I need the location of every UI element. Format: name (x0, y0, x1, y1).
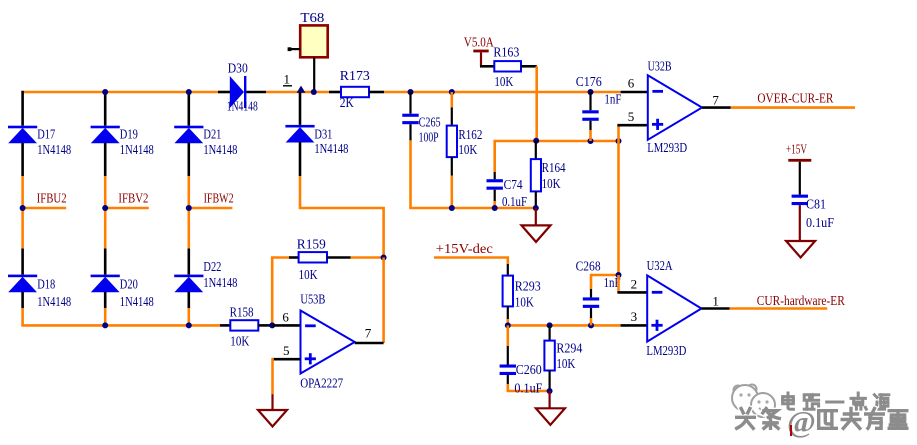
wire U53B pin5 stub (273, 358, 301, 361)
svg-text:6: 6 (282, 309, 289, 324)
diode D22 1N4148 (174, 275, 203, 293)
svg-text:0.1uF: 0.1uF (806, 215, 834, 230)
svg-text:0.1uF: 0.1uF (514, 380, 542, 395)
svg-text:+15V: +15V (786, 141, 807, 156)
svg-text:1N4148: 1N4148 (227, 99, 258, 114)
svg-text:1N4148: 1N4148 (37, 294, 71, 309)
wire C81 to ground (799, 205, 801, 241)
wire R294 bottom lead (548, 371, 550, 392)
wire D19 top lead (104, 92, 107, 126)
power V5.0A bar (473, 50, 488, 53)
wire below D17 (21, 143, 24, 176)
wire R164 bottom lead (535, 191, 537, 208)
wire R158 right lead (258, 324, 272, 327)
svg-text:1N4148: 1N4148 (37, 142, 71, 157)
svg-text:3: 3 (631, 309, 638, 324)
svg-text:R293: R293 (515, 279, 541, 294)
watermark text line1 (783, 393, 794, 409)
junction C268 bottom (588, 322, 594, 328)
diode D31 1N4148 (285, 125, 314, 143)
svg-text:10K: 10K (494, 74, 513, 89)
junction C176 top (588, 89, 594, 95)
ground C81 (786, 241, 815, 258)
watermark text line2 (737, 409, 755, 429)
wire D17 top lead (21, 91, 24, 126)
wire U32B pin5 stub (617, 124, 648, 127)
diode D21 1N4148 (174, 126, 203, 144)
junction R294 top (547, 322, 553, 328)
capacitor C176 1nF plates (582, 110, 598, 120)
svg-text:IFBV2: IFBV2 (118, 191, 148, 206)
svg-text:IFBU2: IFBU2 (37, 191, 67, 206)
wire R163 left lead (480, 65, 494, 68)
wire R162 bottom lead (451, 157, 453, 175)
wire ground stem U53B (271, 394, 273, 410)
svg-text:1: 1 (712, 293, 719, 308)
wire R162 top stub (450, 92, 453, 108)
wire threshold rail (495, 140, 619, 143)
svg-text:10K: 10K (299, 267, 318, 282)
wire below D20 (104, 292, 107, 308)
wire top bus after D30 (266, 91, 329, 94)
wire R173 left lead (329, 91, 341, 94)
svg-text:D22: D22 (203, 259, 221, 274)
svg-text:C81: C81 (806, 196, 826, 211)
op-amp U32B LM293D body (648, 75, 702, 140)
svg-text:0.1uF: 0.1uF (502, 194, 527, 209)
wire D21 top lead (188, 92, 191, 126)
wire R293 bottom stub (506, 319, 509, 325)
svg-text:R163: R163 (493, 44, 519, 59)
junction R164 bottom (533, 205, 539, 211)
svg-text:R158: R158 (230, 304, 254, 319)
wire D22 top lead (188, 249, 191, 275)
diode D20 1N4148 (91, 275, 120, 293)
wire D20 top lead (104, 249, 107, 275)
wire top bus left segment (21, 91, 218, 94)
op-amp U32B LM293D minus sign (652, 90, 663, 93)
resistor R294 body (544, 341, 554, 371)
stray red mark under watermark (790, 425, 792, 436)
op-amp U32A LM293D plus sign (651, 324, 662, 327)
svg-text:7: 7 (365, 325, 372, 340)
ground stage2 (536, 408, 565, 425)
op-amp U53B OPA2227 body (301, 311, 355, 374)
wire U53B output lead (355, 342, 384, 345)
wire R294 top lead (548, 325, 550, 340)
junction IFBW2 (186, 205, 192, 211)
svg-text:5: 5 (283, 343, 290, 358)
node IFB stub 1 (23, 207, 67, 210)
wire T68 left pin (290, 48, 300, 50)
resistor R164 body (531, 159, 541, 191)
diode D30 1N4148 (230, 76, 247, 108)
wire R293 top lead (507, 264, 509, 276)
wire C265 to middle rail (411, 140, 536, 208)
wire R162 top lead (451, 108, 453, 126)
wire top bus after R173 to U32B pin6 (384, 91, 621, 94)
junction R293 bottom (505, 322, 511, 328)
svg-text:1N4148: 1N4148 (314, 141, 348, 156)
wire C260 bottom lead (507, 375, 509, 384)
svg-text:U53B: U53B (300, 291, 325, 306)
svg-text:2: 2 (631, 276, 638, 291)
svg-text:C268: C268 (576, 258, 601, 273)
svg-text:R294: R294 (556, 340, 582, 355)
svg-text:R164: R164 (542, 160, 566, 175)
svg-text:D30: D30 (228, 61, 248, 76)
svg-text:7: 7 (712, 93, 719, 108)
diode D18 1N4148 (8, 275, 37, 293)
wire +15V stem (799, 162, 801, 195)
resistor R163 body (494, 61, 521, 71)
svg-text:10K: 10K (230, 333, 249, 348)
op-amp U32A LM293D body (647, 275, 701, 341)
junction T68 pin on bus (311, 89, 317, 95)
svg-text:1N4148: 1N4148 (120, 142, 154, 157)
svg-text:D20: D20 (120, 277, 138, 292)
wire IFB node down (21, 208, 24, 249)
wire feedback drop (382, 258, 385, 344)
svg-text:IFBW2: IFBW2 (204, 191, 234, 206)
wire OVER-CUR-ER net (731, 106, 855, 109)
wire threshold rail to stage2 (617, 141, 620, 275)
wire R159 to output node (351, 256, 384, 259)
op-amp U53B OPA2227 plus sign (305, 357, 316, 360)
wire D21 to IFB node (188, 176, 191, 208)
wire C74 bottom stub (493, 201, 496, 208)
diode D19 1N4148 (91, 126, 120, 144)
junction IFBV2 (102, 205, 108, 211)
wire U32A output lead (701, 307, 729, 310)
wire IFB node down (104, 208, 107, 249)
component T68 body (300, 25, 328, 57)
wire C176 bottom stub (589, 130, 592, 141)
svg-text:D31: D31 (314, 127, 332, 142)
svg-text:D18: D18 (37, 277, 55, 292)
svg-text:R159: R159 (297, 236, 326, 251)
wire R163 drop to R164 (535, 66, 538, 141)
svg-text:C176: C176 (576, 74, 602, 89)
wire U53B pin6 stub (272, 324, 300, 327)
wire bottom-left bus (23, 324, 220, 325)
svg-text:OPA2227: OPA2227 (300, 376, 343, 391)
svg-text:U32A: U32A (647, 258, 673, 273)
wire T68 bottom pin (313, 57, 315, 92)
wire U32A pin2 stub (617, 291, 647, 294)
wire R173 right lead (369, 91, 384, 94)
wire C176 top lead (589, 92, 591, 110)
junction C74 bottom (492, 205, 498, 211)
svg-text:1N4148: 1N4148 (120, 294, 154, 309)
wire U53B pin5 drop (271, 358, 274, 394)
resistor R158 body (230, 320, 258, 330)
wire C265 top lead (409, 92, 411, 114)
ground U53B (258, 410, 287, 427)
capacitor C74 0.1nF plates (487, 179, 503, 190)
wire U32A pin2 riser (617, 275, 620, 292)
wire D30 cathode lead (246, 91, 266, 94)
junction R162 bottom (449, 205, 455, 211)
junction C176 bottom (588, 138, 594, 144)
wire CUR-hardware-ER net (730, 307, 828, 310)
wire below D22 (188, 292, 191, 308)
wire C268 top stub (590, 274, 593, 289)
wire D18 to bottom bus (21, 308, 24, 325)
op-amp U32B LM293D plus sign (652, 123, 663, 126)
wire U32B pin5 riser (617, 125, 620, 141)
svg-text:+15V-dec: +15V-dec (436, 241, 493, 256)
junction feedback node (381, 255, 387, 261)
junction D20 bottom (102, 322, 108, 328)
svg-text:D21: D21 (203, 127, 221, 142)
wire R163 right lead (521, 65, 537, 68)
junction D21 top (186, 89, 192, 95)
wire below D19 (104, 143, 107, 176)
svg-text:U32B: U32B (648, 59, 672, 74)
resistor R159 body (299, 252, 327, 262)
resistor R162 body (447, 126, 457, 158)
wire R159 left feed (272, 258, 289, 326)
wire IFB node down (188, 208, 191, 249)
svg-text:1: 1 (284, 72, 291, 87)
op-amp U32A LM293D minus sign (652, 291, 663, 294)
node IFB stub 3 (189, 207, 233, 210)
svg-text:100P: 100P (419, 129, 439, 144)
junction R294 bottom (547, 388, 553, 394)
svg-text:CUR-hardware-ER: CUR-hardware-ER (757, 293, 845, 308)
svg-text:6: 6 (628, 76, 635, 91)
wire stage2 input rail (508, 324, 621, 327)
wire R164 top lead (535, 141, 537, 159)
svg-text:5: 5 (628, 109, 635, 124)
wire below D31 (299, 142, 302, 176)
op-amp U53B OPA2227 minus sign (305, 324, 316, 327)
junction D22 bottom (186, 322, 192, 328)
node IFB stub 2 (105, 207, 149, 210)
svg-text:10K: 10K (556, 356, 575, 371)
resistor R293 body (503, 276, 513, 307)
svg-text:1nF: 1nF (604, 91, 621, 106)
wire C268 top lead (590, 289, 592, 297)
wire ground stem mid (535, 208, 537, 225)
wire C74 bottom lead (494, 190, 496, 201)
capacitor C81 0.1uF plates (792, 195, 808, 206)
junction R163/R164 (533, 138, 539, 144)
wire D31 top lead (299, 92, 302, 125)
wire D20 to bottom bus (104, 308, 107, 325)
power +15V bar (788, 159, 811, 162)
capacitor C260 0.1nF plates (500, 365, 516, 376)
junction IFBU2 (20, 205, 26, 211)
wire R162 bottom stub (450, 176, 453, 209)
wire C268 bottom lead (590, 308, 592, 318)
svg-text:R162: R162 (458, 127, 482, 142)
wire C74 top stub (493, 140, 496, 172)
capacitor C265 100P plates (402, 114, 418, 125)
svg-text:10K: 10K (515, 294, 534, 309)
wire C176 bottom lead (589, 121, 591, 130)
wire C260 top lead (507, 346, 509, 365)
wire U32A pin3 stub (621, 324, 648, 327)
svg-text:D19: D19 (120, 127, 138, 142)
wire C260 top stub (506, 325, 509, 346)
wire R293 bottom lead (507, 306, 509, 319)
svg-text:10K: 10K (458, 142, 477, 157)
wire V5.0A stem (480, 52, 482, 66)
wire D18 top lead (21, 249, 24, 275)
svg-text:V5.0A: V5.0A (464, 34, 494, 49)
wire D19 to IFB node (104, 176, 107, 208)
svg-text:1N4148: 1N4148 (203, 275, 237, 290)
resistor R173 body (341, 87, 369, 97)
wire D22 to bottom bus (188, 308, 191, 325)
wire below D21 (188, 143, 191, 176)
svg-text:D17: D17 (37, 127, 55, 142)
ground mid rail (522, 225, 551, 242)
svg-text:R173: R173 (340, 68, 370, 83)
wire D31 to feedback rail (300, 176, 384, 258)
junction D19 top (102, 89, 108, 95)
wire C74 top lead (494, 172, 496, 179)
junction rail corner (616, 138, 622, 144)
junction arrow at D31 top (297, 86, 306, 93)
svg-text:10K: 10K (542, 176, 561, 191)
diode D17 1N4148 (8, 126, 37, 144)
wire R159 left lead (289, 256, 299, 259)
wire below D18 (21, 292, 24, 308)
wire U32B pin6 stub (621, 91, 648, 94)
wire +15V-dec feed (434, 258, 508, 265)
wire C265 bottom lead (409, 124, 411, 140)
svg-text:T68: T68 (300, 10, 324, 25)
svg-text:1N4148: 1N4148 (203, 142, 237, 157)
junction R162 top (449, 89, 455, 95)
wire U32B output lead (702, 106, 731, 109)
junction R158 output (269, 322, 275, 328)
wire D17 to IFB node (21, 176, 24, 208)
junction C268 rail (616, 272, 622, 278)
watermark face icons (732, 385, 775, 418)
svg-text:2K: 2K (340, 95, 354, 110)
svg-text:LM293D: LM293D (647, 140, 687, 155)
wire R159 right lead (327, 256, 351, 259)
wire C260 bottom stub (508, 384, 550, 391)
svg-text:C260: C260 (516, 362, 542, 377)
svg-text:OVER-CUR-ER: OVER-CUR-ER (757, 90, 833, 105)
wire ground stem stage2 (548, 391, 550, 408)
svg-text:C265: C265 (419, 114, 441, 129)
junction C265 top (408, 89, 414, 95)
wire C268 feed (591, 274, 619, 277)
wire C268 bottom stub (590, 318, 593, 325)
capacitor C268 1nF plates (583, 297, 599, 308)
wire D30 anode lead (218, 91, 230, 94)
svg-text:C74: C74 (504, 177, 523, 192)
wire R158 left lead (220, 324, 230, 327)
svg-text:LM293D: LM293D (646, 343, 686, 358)
